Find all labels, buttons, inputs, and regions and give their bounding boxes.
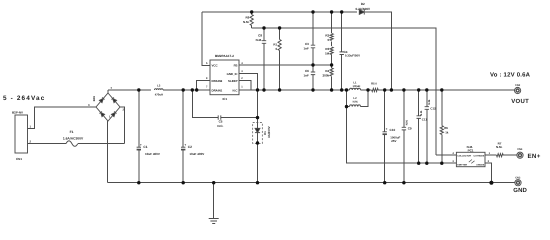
svg-text:BM2PAA17-2: BM2PAA17-2	[215, 54, 234, 58]
outline D1 dashed	[253, 123, 263, 144]
wire R9 bottom	[251, 26, 253, 29]
connector CN2 VOUT	[515, 87, 521, 93]
junction at 346.5,90	[345, 88, 348, 91]
wire VCC pin to top rail	[202, 12, 210, 65]
svg-text:1nF: 1nF	[303, 47, 309, 51]
svg-text:C3: C3	[305, 42, 309, 46]
diode D1	[255, 128, 260, 132]
resistor R4	[330, 68, 333, 76]
svg-text:CN2: CN2	[515, 84, 521, 87]
capacitor C4	[340, 52, 344, 55]
capacitor C8	[262, 41, 266, 44]
resistor R3	[330, 47, 333, 55]
wire capacitor C1 top	[138, 90, 140, 147]
bridge diode top-left	[99, 97, 104, 102]
svg-text:N.M.: N.M.	[256, 38, 262, 42]
wire R6 top	[441, 90, 443, 126]
junction at 368,90	[366, 88, 369, 91]
wire SLEEP pin2	[239, 81, 251, 90]
wire R2-R3	[331, 42, 333, 47]
connector CN4 EN	[517, 152, 523, 158]
wire out rail b	[361, 89, 372, 91]
junction at 341.7,90	[340, 88, 343, 91]
junction at 138.8,182.7	[137, 181, 140, 184]
svg-text:N.M.: N.M.	[353, 100, 359, 103]
capacitor C10	[383, 132, 387, 134]
wire D1 top	[257, 90, 259, 128]
svg-text:C10: C10	[390, 128, 396, 132]
junction at 183.2,90	[182, 88, 185, 91]
svg-text:IC1: IC1	[222, 97, 227, 101]
junction at 264,28	[262, 26, 265, 29]
diode D2	[359, 9, 364, 14]
connector CN1	[15, 115, 28, 153]
junction at 138.8,90	[137, 88, 140, 91]
svg-text:B2P-NV: B2P-NV	[12, 111, 23, 115]
wire CN1 pin2 to fuse	[28, 143, 67, 145]
wire CN1 pin1 to bridge	[28, 107, 97, 128]
wire R3 to FB	[331, 55, 333, 69]
bridge diode bottom-right	[111, 111, 116, 116]
capacitor C3	[311, 45, 315, 48]
svg-text:F1: F1	[70, 130, 74, 134]
resistor R7	[497, 154, 504, 157]
junction at 403.9,182.7	[402, 181, 405, 184]
junction at 491.4,182.7	[489, 181, 493, 185]
wire D1 bottom	[257, 133, 259, 183]
svg-text:CN1: CN1	[16, 157, 22, 161]
svg-text:200k: 200k	[323, 73, 330, 77]
svg-text:+: +	[110, 86, 112, 90]
svg-text:VOUT: VOUT	[511, 98, 529, 105]
resistor R2	[330, 34, 333, 41]
wire top rail right down	[365, 12, 392, 90]
svg-text:100uH: 100uH	[353, 85, 361, 88]
wire C10 top	[384, 90, 386, 132]
bridge BD1 outline	[96, 93, 120, 121]
wire bridge top stub	[107, 90, 109, 93]
wire capacitor C2 bottom	[182, 150, 184, 183]
svg-text:R5 0: R5 0	[371, 82, 377, 85]
capacitor C5	[218, 115, 221, 119]
svg-text:SLEEP: SLEEP	[228, 79, 238, 83]
junction at 341.7,12	[340, 10, 343, 13]
svg-text:C1: C1	[143, 145, 147, 149]
junction at 251.7,12	[250, 10, 253, 13]
wire C11 top	[418, 90, 420, 116]
wire fuse to bridge	[78, 143, 125, 145]
wire gnd stub	[213, 183, 215, 219]
svg-text:0.33uF/50V: 0.33uF/50V	[345, 54, 360, 58]
wire C4 top	[341, 12, 343, 52]
wire R7 to EN	[503, 154, 517, 156]
svg-text:BD1: BD1	[93, 95, 96, 101]
wire switch node down	[192, 90, 218, 118]
capacitor C2	[181, 147, 185, 149]
junction at 213.7,182.7	[212, 181, 215, 184]
svg-text:FB: FB	[234, 64, 238, 68]
wire L2 branch down	[346, 90, 348, 107]
svg-text:1M: 1M	[325, 51, 330, 55]
svg-text:CN4: CN4	[517, 148, 523, 151]
svg-text:N.M.: N.M.	[428, 99, 431, 105]
wire C9 bottom	[403, 130, 405, 183]
svg-text:25V: 25V	[391, 139, 396, 143]
junction at 313,65	[311, 63, 314, 66]
fuse F1	[66, 141, 78, 146]
junction at 196.7,90	[195, 88, 198, 91]
svg-text:CATHODE: CATHODE	[474, 155, 485, 158]
wire gnd rail	[108, 182, 515, 184]
wire out rail c	[378, 89, 514, 91]
wire capacitor C2 top	[182, 90, 184, 147]
junction at 331.6,12	[330, 10, 333, 13]
svg-text:L2: L2	[353, 97, 357, 100]
junction at 313,90	[311, 88, 314, 91]
junction at 257.5,182.7	[256, 181, 259, 184]
wire dc rail left	[108, 89, 151, 91]
junction at 384.7,182.7	[383, 181, 386, 184]
wire sense to opto pin4	[436, 154, 456, 156]
inductor L1	[350, 88, 361, 90]
junction at 403.9,90	[402, 88, 405, 91]
svg-text:N.M.: N.M.	[496, 145, 502, 149]
capacitor C6	[311, 72, 315, 75]
svg-text:C9: C9	[408, 127, 412, 131]
inductor L2	[350, 105, 361, 107]
wire top rail	[202, 11, 357, 13]
junction at 441.8,163.2	[440, 162, 443, 165]
svg-text:N.C.: N.C.	[217, 124, 223, 128]
wire sense rail	[252, 28, 436, 155]
junction at 183.2,182.7	[182, 181, 185, 184]
junction at 257.5,90	[256, 88, 259, 91]
wire DRAIN2 bracket	[197, 81, 210, 90]
capacitor C12	[425, 107, 429, 110]
svg-text:R2: R2	[325, 34, 329, 38]
svg-text:N.M.: N.M.	[243, 20, 249, 24]
svg-text:470uH: 470uH	[155, 92, 163, 96]
wire C12 top	[426, 90, 428, 107]
connector CN3 GND	[515, 180, 521, 186]
capacitor C1	[137, 147, 141, 149]
svg-text:5 - 264Vac: 5 - 264Vac	[3, 95, 45, 102]
svg-text:R6: R6	[444, 126, 448, 130]
svg-text:Vo : 12V 0.6A: Vo : 12V 0.6A	[490, 72, 531, 79]
wire L2 left stub	[347, 106, 350, 108]
svg-text:N.M.: N.M.	[420, 110, 423, 116]
svg-text:10uF 400V: 10uF 400V	[145, 152, 160, 156]
junction at 418.7,90	[417, 88, 420, 91]
optocoupler PC1 body	[456, 152, 485, 166]
svg-text:EMITTER: EMITTER	[457, 164, 467, 167]
wire FB rail	[239, 64, 332, 66]
junction at 264,90	[262, 88, 265, 91]
wire out rail a	[239, 89, 350, 91]
wire C11 bottom	[418, 118, 420, 163]
junction at 426.8,90	[425, 88, 428, 91]
svg-text:ANODE: ANODE	[476, 164, 484, 167]
svg-text:C2: C2	[188, 145, 192, 149]
svg-text:1k: 1k	[445, 131, 449, 135]
junction at 331.6,65	[330, 63, 333, 66]
wire C5 to D1	[221, 117, 257, 119]
svg-text:10uF 400V: 10uF 400V	[189, 152, 204, 156]
ground	[209, 219, 219, 224]
svg-text:N.M.: N.M.	[406, 119, 409, 125]
bridge diode top-right	[111, 97, 116, 102]
svg-text:D2: D2	[361, 2, 365, 6]
svg-text:C11: C11	[422, 117, 428, 121]
wire R2 top	[331, 12, 333, 33]
wire bridge pin2 down	[120, 107, 125, 144]
resistor R5	[372, 88, 379, 91]
svg-text:0.2A/600V: 0.2A/600V	[355, 7, 371, 11]
junction at 257.5,143	[256, 141, 259, 144]
svg-text:GND_IC: GND_IC	[227, 72, 239, 76]
junction at 384.7,90	[383, 88, 386, 91]
wire R6 bottom	[441, 135, 443, 164]
junction at 441.8,90	[440, 88, 443, 91]
wire R9 top	[251, 12, 253, 15]
junction at 426.8,163.2	[425, 162, 428, 165]
svg-text:1.6A/AC300V: 1.6A/AC300V	[63, 136, 84, 140]
svg-text:EN+: EN+	[528, 153, 541, 160]
svg-text:R1: R1	[273, 43, 277, 47]
bridge diode bottom-left	[99, 111, 104, 116]
wire opto pin2 to gnd	[485, 163, 491, 183]
wire R4 bottom	[331, 77, 333, 91]
junction at 346.5,106.6	[345, 105, 348, 108]
wire C6 bottom	[312, 75, 314, 90]
junction at 279.6,28	[278, 26, 281, 29]
wire C9 top	[403, 90, 405, 127]
svg-text:1nF: 1nF	[303, 74, 309, 78]
resistor R6	[440, 126, 443, 135]
wire C4 bottom	[341, 55, 343, 91]
wire C3 bottom	[312, 48, 314, 65]
wire capacitor C1 bottom	[138, 150, 140, 183]
capacitor C11	[417, 116, 421, 119]
svg-text:R4: R4	[325, 69, 329, 73]
wire C8 bottom	[263, 43, 265, 90]
svg-text:C12: C12	[430, 106, 436, 110]
svg-text:DRAIN2: DRAIN2	[212, 79, 223, 83]
capacitor C9	[402, 127, 406, 130]
resistor R1	[278, 40, 281, 51]
wire C6 top	[312, 65, 314, 72]
svg-text:DRAIN1: DRAIN1	[212, 88, 223, 92]
svg-text:R9: R9	[245, 16, 249, 20]
wire R1 bottom	[279, 51, 281, 91]
opto led arrows	[469, 160, 475, 164]
svg-text:PC1: PC1	[468, 148, 474, 152]
wire R1 top	[279, 28, 281, 40]
junction at 192.3,90	[191, 88, 194, 91]
svg-text:COLLECTOR: COLLECTOR	[457, 155, 471, 158]
svg-text:CN3: CN3	[515, 176, 521, 179]
op-amp IC1 body	[210, 60, 239, 95]
wire dc rail to IC	[163, 89, 210, 91]
svg-text:+: +	[386, 127, 388, 131]
wire C3 top	[312, 12, 314, 45]
svg-text:L1: L1	[353, 82, 357, 85]
wire C10 bottom	[384, 134, 386, 182]
wire opto pin1 to R7	[485, 154, 497, 156]
wire C12 bottom	[426, 109, 428, 163]
junction at 279.6,90	[278, 88, 281, 91]
wire C8 top	[263, 28, 265, 41]
svg-text:VCC: VCC	[212, 64, 219, 68]
inductor L3	[155, 89, 164, 90]
junction at 391.4,90	[390, 88, 393, 91]
junction at 313,12	[311, 10, 314, 13]
svg-text:R3: R3	[325, 47, 329, 51]
svg-text:GND: GND	[513, 187, 527, 194]
junction at 257.5,117.6	[256, 116, 259, 119]
wire sense to opto pin3	[347, 107, 457, 164]
svg-text:+: +	[184, 143, 186, 147]
wire L2 up	[361, 90, 369, 107]
svg-text:+: +	[140, 143, 142, 147]
svg-text:L3: L3	[157, 83, 161, 87]
junction at 331.6,90	[330, 88, 333, 91]
wire GND_IC pin3	[239, 73, 258, 90]
svg-text:3A/600V: 3A/600V	[267, 126, 271, 138]
resistor R9	[250, 15, 253, 26]
junction at 418.7,163.2	[417, 162, 420, 165]
svg-text:C6: C6	[305, 69, 309, 73]
wire bridge bottom to gnd rail	[107, 121, 109, 183]
